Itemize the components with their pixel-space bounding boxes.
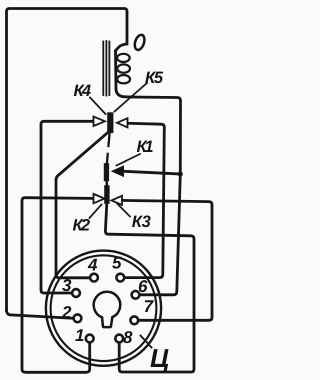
- leader K2: [90, 205, 102, 219]
- link bar2-bar3: [105, 180, 108, 187]
- coil core line 1: [102, 42, 104, 96]
- svg-text:5: 5: [112, 254, 122, 273]
- socket pin 4: [90, 274, 98, 282]
- svg-text:2: 2: [61, 303, 72, 322]
- label O (coil): [133, 34, 146, 52]
- socket outer circle: [46, 251, 161, 366]
- contact K5 open arrow: [117, 118, 128, 127]
- wire coil bottom lead to right edge and down to K1 junction, then to pin 6: [130, 97, 181, 295]
- relay coil O winding spine: [116, 51, 131, 97]
- contact bar2 (K1 group movable): [104, 163, 109, 181]
- node junction dot coil/K1: [178, 171, 183, 176]
- svg-text:7: 7: [144, 297, 155, 316]
- contact bar1 (K4/K5 group movable): [107, 112, 113, 133]
- socket pin 5: [116, 274, 124, 282]
- socket pin 6: [132, 291, 140, 299]
- coil loop 1: [117, 54, 130, 62]
- socket pin 8: [115, 335, 123, 343]
- svg-text:3: 3: [62, 276, 72, 295]
- leader K4: [90, 98, 106, 115]
- contact K4 open arrow: [94, 117, 106, 126]
- mechanical dashed link bar1-bar2: [107, 133, 110, 164]
- svg-text:8: 8: [123, 328, 133, 347]
- leader K5: [115, 83, 148, 112]
- svg-text:К5: К5: [145, 69, 164, 87]
- contact K3 open arrow: [112, 196, 123, 205]
- wire K3 contact line down right edge to pin 7: [122, 200, 212, 320]
- wire movable bar3 stem to right, down to bottom, to pin 8: [105, 204, 194, 373]
- coil core line 2: [105, 41, 107, 96]
- socket pin 1: [86, 335, 94, 343]
- contact K2 open arrow: [94, 194, 105, 203]
- wire movable bar1 diagonal down-left and to pin 4: [56, 132, 109, 278]
- svg-text:4: 4: [87, 256, 98, 275]
- wire K1 contact line: [123, 171, 181, 174]
- svg-text:К1: К1: [137, 138, 154, 156]
- contact bar3 (K2/K3 group movable): [104, 185, 109, 204]
- svg-text:К2: К2: [73, 217, 91, 235]
- leader K3: [117, 204, 130, 217]
- wire K2 contact line down, along bottom to pin 1: [22, 198, 92, 373]
- socket pin 2: [74, 314, 82, 322]
- wire left edge to socket pin 2: [7, 311, 74, 319]
- svg-text:6: 6: [138, 277, 148, 296]
- socket inner circle: [51, 255, 157, 361]
- wire K4 contact line down to pin 3: [41, 121, 92, 293]
- coil loop 2: [117, 64, 130, 72]
- leader C (base): [141, 336, 152, 348]
- wire coil top lead to top-left corner and down left edge: [7, 9, 128, 311]
- svg-text:К4: К4: [74, 82, 92, 100]
- coil loop 3: [117, 75, 130, 83]
- coil core line 3: [108, 42, 110, 96]
- socket keyhole: [94, 292, 121, 327]
- svg-text:К3: К3: [132, 213, 151, 231]
- svg-text:1: 1: [75, 326, 84, 345]
- leader K1: [117, 154, 141, 166]
- socket pin 3: [72, 289, 80, 297]
- contact K1 solid arrow: [112, 166, 124, 176]
- svg-text:Ц: Ц: [150, 343, 169, 373]
- socket pin 7: [130, 316, 138, 324]
- wire K5 contact line down to pin 5: [124, 123, 164, 277]
